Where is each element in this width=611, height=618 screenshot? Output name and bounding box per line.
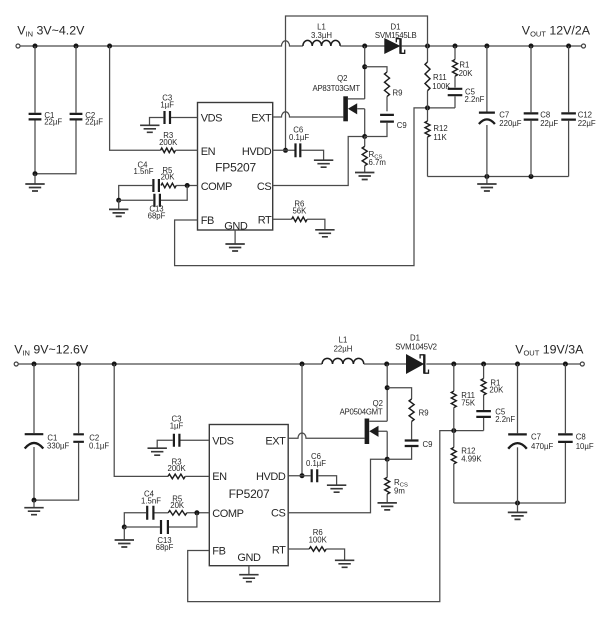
capacitor C5 2.2nF (circuit 2) [476, 411, 491, 417]
junction C2 top (circuit 1) [74, 44, 79, 49]
label C13 68pF [156, 536, 174, 552]
resistor RCS 9m (circuit 2) [385, 459, 390, 503]
diode D1 SVM1545LB [385, 38, 405, 54]
svg-text:R12: R12 [433, 124, 447, 133]
wire C5 bottom (circuit 1) [454, 96, 456, 108]
svg-text:CS: CS [257, 181, 271, 193]
resistor R9 (circuit 2) [409, 399, 414, 421]
wire EN branch (circuit 2) [114, 364, 168, 476]
wire VIN rail (circuit 1) [20, 41, 303, 46]
junction switch node at rail (circuit 2) [384, 362, 389, 367]
wire HVDD pin (circuit 1) [273, 149, 295, 151]
svg-text:22µF: 22µF [44, 118, 62, 127]
svg-text:VDS: VDS [201, 112, 222, 124]
wire EXT to gate (circuit 1) [273, 112, 344, 117]
label Q2 [337, 74, 347, 83]
label VOUT 19V/3A [515, 342, 584, 357]
resistor R3 (circuit 1) [161, 148, 176, 153]
resistor R3 (circuit 2) [168, 474, 185, 479]
resistor R5 (circuit 2) [168, 510, 187, 515]
wire C3 to ground (circuit 2) [157, 440, 173, 448]
svg-text:AP83T03GMT: AP83T03GMT [313, 84, 361, 93]
pin VDS (U1 circuit 1) [201, 112, 222, 124]
svg-text:1.5nF: 1.5nF [134, 167, 154, 176]
svg-text:VIN 3V~4.2V: VIN 3V~4.2V [17, 23, 85, 38]
svg-text:COMP: COMP [201, 181, 232, 193]
junction C8 top (circuit 2) [563, 362, 568, 367]
op-amp U1 FP5207 (circuit 2 controller) [209, 425, 288, 566]
label L1 22µH [334, 336, 353, 354]
wire HVDD riser (circuit 2) [301, 364, 303, 476]
svg-text:EXT: EXT [251, 112, 272, 124]
svg-text:1µF: 1µF [170, 421, 184, 430]
ground input caps (circuit 2) [24, 500, 43, 515]
junction compensation ground node (circuit 2) [122, 525, 127, 530]
junction C1 top (circuit 2) [32, 362, 37, 367]
svg-text:100K: 100K [309, 535, 328, 544]
label RCS 9m [394, 478, 408, 495]
wire HVDD to VOUT top loop (circuit 1) [286, 16, 428, 150]
svg-text:10µF: 10µF [576, 442, 594, 451]
label C5 2.2nF (circuit 2) [495, 407, 515, 424]
capacitor C6 0.1µF (circuit 2) [312, 469, 318, 482]
pin GND (U1 circuit 2) [237, 552, 261, 564]
capacitor C7 220µF (circuit 1) [479, 46, 495, 177]
label R12 11K [433, 124, 447, 142]
ground output (circuit 1) [477, 177, 496, 192]
label R6 100K [309, 528, 328, 544]
svg-text:2.2nF: 2.2nF [495, 415, 515, 424]
wire snubber top (circuit 2) [387, 388, 411, 399]
wire R9 to C9 (circuit 2) [411, 421, 413, 439]
label R11 75K [461, 391, 476, 407]
svg-text:22µF: 22µF [540, 119, 558, 128]
wire drain riser (circuit 2) [386, 364, 388, 421]
pin HVDD (U1 circuit 1) [242, 146, 272, 158]
svg-text:HVDD: HVDD [242, 146, 272, 158]
resistor R12 11K (circuit 1) [425, 108, 430, 177]
inductor L1 (circuit 1) [303, 40, 340, 46]
wire R6 to ground (circuit 2) [326, 549, 344, 560]
label RCS 6.7m [369, 150, 386, 167]
label D1 SVM1545LB [375, 23, 417, 41]
svg-text:200K: 200K [167, 464, 186, 473]
capacitor C3 (circuit 1) [165, 111, 171, 124]
junction compensation ground node (circuit 1) [116, 198, 121, 203]
label C8 22µF [540, 110, 558, 128]
label R1 20K (circuit 2) [489, 378, 504, 394]
junction C1 top (circuit 1) [33, 44, 38, 49]
label R6 56K [292, 200, 307, 216]
svg-text:0.1µF: 0.1µF [289, 133, 309, 142]
label C2 22µF [85, 111, 103, 127]
svg-text:20K: 20K [459, 69, 474, 78]
svg-text:EN: EN [201, 146, 216, 158]
junction C7 top (circuit 1) [484, 44, 489, 49]
label C2 0.1µF [89, 433, 109, 450]
label C8 10µF [576, 433, 594, 451]
ground GND pin (circuit 1) [225, 230, 244, 251]
label C13 68pF [148, 205, 166, 221]
wire VIN rail (circuit 2) [18, 363, 322, 365]
transistor Q2 AP0504GMT (circuit 2) [365, 419, 388, 445]
pin RT (U1 circuit 2) [272, 544, 286, 556]
wire CS (circuit 2) [288, 459, 387, 513]
junction R1 top (circuit 1) [453, 44, 458, 49]
wire RT (circuit 1) [273, 218, 292, 220]
svg-text:C9: C9 [423, 440, 433, 449]
svg-text:VOUT 19V/3A: VOUT 19V/3A [515, 342, 584, 357]
junction drain snubber tap (circuit 2) [385, 385, 390, 390]
capacitor C7 470µF (circuit 2) [508, 364, 527, 503]
svg-text:3.3µH: 3.3µH [311, 31, 332, 40]
junction EN branch (circuit 1) [107, 44, 112, 49]
wire drain riser (circuit 1) [364, 46, 366, 99]
capacitor C5 2.2nF (circuit 1) [448, 89, 463, 95]
label AP0504GMT [340, 407, 383, 416]
svg-text:330µF: 330µF [47, 441, 70, 450]
svg-text:AP0504GMT: AP0504GMT [340, 407, 383, 416]
junction EN branch (circuit 2) [112, 362, 117, 367]
svg-text:56K: 56K [292, 206, 307, 215]
junction COMP node (circuit 2) [194, 510, 199, 515]
ground C3 (circuit 1) [140, 125, 159, 132]
capacitor C12 22µF (circuit 1) [561, 46, 576, 177]
resistor R6 (circuit 2) [309, 547, 326, 552]
wire R3 to EN pin (circuit 2) [185, 475, 209, 477]
pin VDS (U1 circuit 2) [212, 435, 233, 447]
svg-text:75K: 75K [461, 398, 476, 407]
wire D1 cathode to VOUT (circuit 2) [426, 363, 580, 365]
wire C6 to ground [302, 150, 324, 160]
capacitor C13 (circuit 1) [154, 194, 160, 207]
node VIN (circuit 2 input terminal) [14, 362, 18, 366]
node VOUT (circuit 1 output terminal) [582, 44, 586, 48]
label C4 1.5nF [141, 490, 161, 506]
svg-text:HVDD: HVDD [256, 471, 286, 483]
svg-text:GND: GND [224, 221, 248, 233]
svg-text:0.1µF: 0.1µF [306, 459, 326, 468]
ground C6 (circuit 1) [314, 160, 333, 167]
wire L1 to D1 anode [340, 45, 385, 47]
pin COMP (U1 circuit 2) [212, 508, 243, 520]
wire C4 to ground branch [119, 186, 153, 201]
svg-text:RT: RT [272, 544, 286, 556]
resistor R12 4.99K (circuit 2) [451, 431, 456, 503]
svg-text:1µF: 1µF [160, 100, 174, 109]
junction D1 cathode (circuit 1) [425, 44, 430, 49]
label Q2 (circuit 2) [373, 399, 383, 408]
capacitor C3 (circuit 2) [174, 434, 180, 447]
svg-text:0.1µF: 0.1µF [89, 441, 109, 450]
pin CS (U1 circuit 1) [257, 181, 271, 193]
label R11 100K [432, 73, 451, 91]
label R5 20K [170, 494, 185, 510]
pin EN (U1 circuit 1) [201, 146, 216, 158]
wire C9 to source node (circuit 1) [365, 123, 387, 137]
capacitor C9 (circuit 1) [380, 115, 394, 122]
wire L1 to D1 anode (circuit 2) [364, 363, 407, 365]
op-amp U1 FP5207 (circuit 1 controller) [198, 103, 273, 231]
svg-text:C7: C7 [499, 110, 509, 119]
svg-text:SVM1045V2: SVM1045V2 [395, 343, 437, 352]
capacitor C4 (circuit 1) [153, 179, 159, 192]
svg-text:20K: 20K [170, 501, 185, 510]
junction R11 top (circuit 2) [451, 362, 456, 367]
wire output ground rail (circuit 2) [454, 502, 566, 504]
junction C8 top (circuit 1) [529, 44, 534, 49]
svg-text:22µF: 22µF [578, 119, 596, 128]
pin HVDD (U1 circuit 2) [256, 471, 286, 483]
junction HVDD node (circuit 2) [300, 473, 305, 478]
label C1 22µF [44, 111, 62, 127]
capacitor C8 10µF (circuit 2) [558, 364, 573, 503]
svg-text:Q2: Q2 [337, 74, 347, 83]
svg-text:C7: C7 [531, 433, 541, 442]
transistor Q2 AP83T03GMT (circuit 1) [343, 96, 364, 121]
inductor L1 (circuit 2) [322, 358, 364, 364]
wire RT (circuit 2) [288, 548, 309, 550]
label C3 1µF [160, 94, 174, 110]
capacitor C2 (circuit 1) [35, 46, 82, 174]
svg-text:11K: 11K [433, 133, 447, 142]
capacitor C1 (circuit 1) [29, 46, 42, 174]
resistor RCS 6.7m (circuit 1) [362, 137, 367, 173]
junction COMP node (circuit 1) [185, 183, 190, 188]
wire COMP (circuit 1) [176, 185, 197, 187]
label C1 330µF [47, 433, 70, 450]
label VIN 3V~4.2V [17, 23, 85, 38]
capacitor C2 0.1µF (circuit 2) [34, 364, 84, 500]
wire HVDD pin (circuit 2) [288, 475, 310, 477]
junction drain snubber tap (circuit 1) [362, 64, 367, 69]
svg-text:FP5207: FP5207 [215, 161, 256, 175]
junction HVDD riser top (circuit 2) [300, 362, 305, 367]
label AP83T03GMT [313, 84, 361, 93]
junction switch node at rail (circuit 1) [362, 44, 367, 49]
resistor R11 100K (circuit 1) [425, 46, 430, 108]
svg-text:4.99K: 4.99K [461, 454, 482, 463]
wire R3 to EN pin [176, 149, 198, 151]
wire D1 cathode to VOUT terminal [402, 45, 582, 47]
svg-text:VIN 9V~12.6V: VIN 9V~12.6V [14, 342, 89, 357]
wire source to CS node (circuit 2) [386, 431, 388, 459]
junction source CS node (circuit 2) [385, 457, 390, 462]
label C9 [397, 121, 407, 130]
label C3 1µF [170, 414, 184, 430]
junction output ground C7 (circuit 1) [484, 174, 489, 179]
svg-text:D1: D1 [410, 334, 420, 343]
svg-text:6.7m: 6.7m [369, 158, 386, 167]
svg-text:GND: GND [237, 552, 261, 564]
ground RT (circuit 2) [335, 560, 354, 567]
label L1 3.3µH [311, 23, 332, 40]
wire output ground rail (circuit 1) [428, 176, 569, 178]
junction C12 top (circuit 1) [566, 44, 571, 49]
svg-text:L1: L1 [339, 336, 348, 345]
svg-text:EN: EN [212, 471, 227, 483]
ground input caps (circuit 1) [25, 174, 44, 191]
pin EXT (U1 circuit 2) [265, 435, 286, 447]
svg-text:RT: RT [258, 215, 272, 227]
resistor R6 (circuit 1) [292, 217, 308, 222]
label R1 20K [459, 61, 474, 79]
svg-text:20K: 20K [489, 386, 504, 395]
label C7 220µF [499, 110, 522, 128]
svg-text:2.2nF: 2.2nF [465, 95, 485, 104]
label R3 200K [159, 131, 178, 147]
svg-text:220µF: 220µF [499, 119, 522, 128]
wire C6 to ground (circuit 2) [318, 476, 336, 486]
ground compensation (circuit 2) [115, 527, 134, 547]
svg-text:200K: 200K [159, 138, 178, 147]
resistor R1 20K (circuit 2) [481, 364, 486, 410]
label C5 2.2nF [465, 87, 485, 104]
label C6 0.1µF [289, 126, 309, 143]
svg-text:CS: CS [271, 507, 285, 519]
resistor R9 (circuit 1) [385, 72, 390, 96]
capacitor C1 330µF (circuit 2) [25, 364, 44, 500]
ground GND pin (circuit 2) [239, 566, 258, 582]
svg-text:1.5nF: 1.5nF [141, 497, 161, 506]
junction output ground C8 (circuit 1) [529, 174, 534, 179]
junction C2 top (circuit 2) [76, 362, 81, 367]
pin FB (U1 circuit 2) [212, 545, 225, 557]
ground RCS (circuit 1) [355, 173, 374, 180]
svg-text:R11: R11 [433, 73, 447, 82]
svg-text:SVM1545LB: SVM1545LB [375, 31, 417, 40]
svg-text:C12: C12 [578, 110, 592, 119]
wire C13 left (circuit 1) [119, 199, 154, 201]
junction C7 top (circuit 2) [515, 362, 520, 367]
junction feedback divider (circuit 1) [425, 105, 430, 110]
label C7 470µF [531, 433, 554, 451]
svg-text:C9: C9 [397, 121, 407, 130]
pin RT (U1 circuit 1) [258, 215, 272, 227]
wire C13 left (circuit 2) [124, 526, 160, 528]
diode D1 SVM1045V2 [407, 354, 429, 373]
svg-text:R9: R9 [393, 89, 403, 98]
ground RT (circuit 1) [315, 230, 334, 237]
pin GND (U1 circuit 1) [224, 221, 248, 233]
node VIN (circuit 1 input terminal) [16, 44, 20, 48]
junction input cap ground (circuit 2) [32, 498, 37, 503]
svg-text:9m: 9m [394, 486, 405, 495]
label D1 SVM1045V2 [395, 334, 437, 352]
junction feedback divider (circuit 2) [451, 428, 456, 433]
resistor R1 20K (circuit 1) [453, 46, 458, 88]
junction R1 top (circuit 2) [481, 362, 486, 367]
label C9 (circuit 2) [423, 440, 433, 449]
junction output ground C7 (circuit 2) [515, 501, 520, 506]
svg-text:VOUT 12V/2A: VOUT 12V/2A [522, 23, 591, 38]
wire EXT to gate (circuit 2) [288, 433, 364, 438]
label C4 1.5nF [134, 160, 154, 176]
capacitor C13 (circuit 2) [161, 520, 168, 534]
label R12 4.99K [461, 447, 482, 464]
pin CS (U1 circuit 2) [271, 507, 285, 519]
svg-text:C8: C8 [576, 433, 586, 442]
wire FB sense (circuit 2) [188, 431, 484, 602]
wire C9 to source node (circuit 2) [387, 447, 411, 459]
svg-text:68pF: 68pF [156, 543, 174, 552]
resistor R5 (circuit 1) [161, 183, 176, 188]
wire VDS (circuit 2) [181, 439, 210, 441]
wire C5 bottom (circuit 2) [483, 418, 485, 431]
capacitor C4 (circuit 2) [147, 506, 168, 520]
ground output (circuit 2) [508, 503, 527, 519]
junction input cap ground (circuit 1) [33, 171, 38, 176]
wire C13 right to COMP node [161, 186, 187, 201]
ground C6 (circuit 2) [327, 485, 346, 492]
pin FB (U1 circuit 1) [201, 215, 214, 227]
wire snubber top (circuit 1) [365, 67, 387, 72]
wire R9 to C9 [386, 97, 388, 112]
label VIN 9V~12.6V [14, 342, 89, 357]
pin EN (U1 circuit 2) [212, 471, 227, 483]
svg-text:EXT: EXT [265, 435, 286, 447]
junction source CS node (circuit 1) [362, 134, 367, 139]
label C12 22µF [578, 110, 596, 128]
capacitor C9 (circuit 2) [405, 441, 419, 447]
wire C3 to ground [150, 118, 164, 126]
svg-text:22µF: 22µF [85, 118, 103, 127]
ground RCS (circuit 2) [378, 503, 397, 510]
wire R6 to ground [307, 219, 325, 230]
svg-text:FP5207: FP5207 [229, 487, 270, 501]
svg-text:470µF: 470µF [531, 442, 554, 451]
pin EXT (U1 circuit 1) [251, 112, 272, 124]
capacitor C8 22µF (circuit 1) [524, 46, 539, 177]
svg-text:COMP: COMP [212, 508, 243, 520]
node VOUT (circuit 2 output terminal) [580, 362, 584, 366]
capacitor C6 (circuit 1) [296, 143, 301, 157]
svg-text:68pF: 68pF [148, 211, 166, 220]
label R3 200K [167, 457, 186, 473]
pin COMP (U1 circuit 1) [201, 181, 232, 193]
label C6 0.1µF [306, 452, 326, 468]
wire FB sense (circuit 1) [175, 108, 455, 266]
wire VDS (circuit 1) [171, 117, 198, 119]
label R9 [393, 89, 403, 98]
ground compensation (circuit 1) [109, 200, 128, 216]
wire source to CS node (circuit 1) [364, 109, 366, 137]
wire CS (circuit 1) [273, 137, 365, 186]
svg-text:FB: FB [201, 215, 214, 227]
wire C4 to ground branch (circuit 2) [124, 513, 146, 527]
label VOUT 12V/2A [522, 23, 591, 38]
wire EN branch (circuit 1) [110, 46, 161, 150]
junction HVDD riser (circuit 1) [283, 148, 288, 153]
ground C3 (circuit 2) [148, 448, 167, 455]
wire COMP (circuit 2) [187, 512, 210, 514]
svg-text:FB: FB [212, 545, 225, 557]
resistor R11 75K (circuit 2) [451, 364, 456, 431]
wire C13 right to COMP node (circuit 2) [169, 513, 197, 527]
svg-text:22µH: 22µH [334, 344, 353, 353]
label R9 (circuit 2) [419, 409, 429, 418]
svg-text:R9: R9 [419, 409, 429, 418]
svg-text:VDS: VDS [212, 435, 233, 447]
svg-text:20K: 20K [161, 173, 176, 182]
label R5 20K [161, 166, 176, 182]
svg-text:C8: C8 [540, 110, 550, 119]
